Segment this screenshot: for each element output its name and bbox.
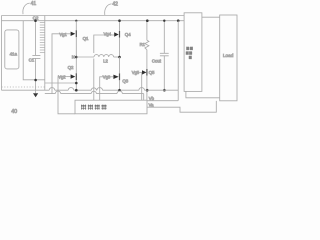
junction dot Q4 drain <box>118 19 121 22</box>
transistor Q2 <box>66 76 70 78</box>
svg-text:40: 40 <box>11 109 17 115</box>
transistor Q3 <box>109 76 113 78</box>
wire left edge <box>1 16 3 91</box>
wire 41a to rails <box>23 21 45 80</box>
wire Q4 source <box>119 38 121 58</box>
junction dot C1 bottom <box>34 79 37 82</box>
svg-text:Cout: Cout <box>152 59 162 64</box>
wire hop on sense line at x93.8 <box>91 91 96 93</box>
junction dot node N <box>75 56 78 59</box>
wire Q1 drain <box>75 21 77 31</box>
svg-text:Q1: Q1 <box>83 36 89 41</box>
wire Q5 gate run <box>141 72 143 100</box>
junction dot C1 top <box>34 19 37 22</box>
capacitor C1 ladder rungs <box>40 23 45 53</box>
transistor Q1 <box>66 33 70 35</box>
wire top bus <box>2 15 185 17</box>
svg-text:41: 41 <box>31 1 37 7</box>
wire hop on rail B at x99.7 <box>97 88 103 91</box>
resistor R1 top lead <box>146 21 148 41</box>
svg-text:L2: L2 <box>103 59 108 64</box>
battery 41a <box>5 30 19 69</box>
wire hop on rail B at x141.7 <box>139 88 145 91</box>
wire filter box bottom to load <box>186 91 220 97</box>
wire box41 right edge <box>44 16 46 91</box>
node 41 leader squiggle <box>23 3 30 14</box>
svg-text:Vg4: Vg4 <box>104 31 112 36</box>
svg-text:N: N <box>72 55 75 60</box>
wire Q3 drain <box>119 57 121 73</box>
wire rail A (positive rail) <box>2 20 185 22</box>
junction dot Q3 source <box>118 89 121 92</box>
node 42 leader squiggle <box>105 4 112 15</box>
wire Q5 source <box>146 76 148 101</box>
wire hop on rail B at x93.8 <box>91 88 96 90</box>
wire sense line y93.6 <box>45 94 144 101</box>
junction dot Cout bottom <box>163 89 166 92</box>
svg-text:41a: 41a <box>10 52 18 57</box>
svg-text:Q2: Q2 <box>68 65 74 70</box>
wire Va sense <box>147 101 216 112</box>
svg-text:Vg5: Vg5 <box>132 70 140 75</box>
output filter box <box>184 13 202 92</box>
wire Q3 source <box>119 80 121 90</box>
output filter label 滤波 <box>186 51 193 55</box>
junction dot rail A stub <box>75 82 78 85</box>
svg-text:C1: C1 <box>29 58 35 63</box>
control circuit box <box>75 100 147 114</box>
load box <box>220 15 237 101</box>
wire L2 to right leg <box>114 56 120 58</box>
wire hop on sense line at x58 <box>55 91 60 94</box>
wire Q4 drain <box>119 21 121 31</box>
capacitor C1 plates <box>32 56 40 59</box>
wire dashed boundary <box>2 86 45 88</box>
wire filter to load top <box>202 16 220 18</box>
capacitor C1 bottom lead <box>35 58 37 90</box>
wire hop on rail B at x52 <box>49 88 55 91</box>
transistor Q4 <box>111 34 114 36</box>
wire Q2 source <box>75 80 77 90</box>
capacitor Cout plates <box>160 53 169 56</box>
wire hop on rail B at x71 <box>68 88 74 91</box>
control circuit label 控制电路 <box>81 105 107 110</box>
wire Vb sense <box>147 100 178 102</box>
svg-text:Q3: Q3 <box>122 78 128 83</box>
wire Q1 gate run <box>52 34 66 94</box>
wire rail A stub <box>45 82 77 84</box>
svg-text:Vg2: Vg2 <box>58 75 66 80</box>
wire Q2 drain <box>75 57 77 73</box>
junction dot R1 bottom <box>146 89 149 92</box>
capacitor C1 top lead <box>35 21 37 55</box>
wire hop on sense line at x119.7 <box>117 91 122 94</box>
ground <box>35 90 37 93</box>
svg-text:Load: Load <box>223 53 234 58</box>
resistor R1 <box>145 40 149 49</box>
wire Q3 gate run <box>100 77 109 100</box>
wire rail B (return rail) <box>2 89 179 91</box>
junction dot right branch <box>177 19 180 22</box>
resistor R1 bottom lead <box>146 50 148 69</box>
wire Q2 gate run <box>58 77 75 114</box>
svg-text:42: 42 <box>112 1 118 7</box>
junction dot Cout top <box>163 20 165 22</box>
junction dot R1 top <box>146 19 149 22</box>
svg-text:Q4: Q4 <box>125 32 131 37</box>
output filter label 器 <box>189 56 192 60</box>
svg-text:Va: Va <box>149 102 154 107</box>
svg-text:Q5: Q5 <box>149 70 155 75</box>
svg-text:R1: R1 <box>140 42 146 47</box>
junction dot L2 right <box>118 56 121 59</box>
svg-text:Vg1: Vg1 <box>59 32 67 37</box>
wire right branch vertical <box>177 21 179 101</box>
capacitor Cout bottom lead <box>163 56 165 90</box>
wire Q4 gate run <box>94 35 111 53</box>
output filter label 输出 <box>186 47 193 51</box>
capacitor Cout top lead <box>163 21 165 54</box>
junction dot Q2 source <box>75 89 78 92</box>
junction dot Q1 drain <box>75 20 77 22</box>
inductor L2 <box>94 55 114 57</box>
wire node N to L2 <box>76 56 94 58</box>
transistor Q5 <box>139 71 142 73</box>
wire Q1 source to node N <box>75 37 77 57</box>
